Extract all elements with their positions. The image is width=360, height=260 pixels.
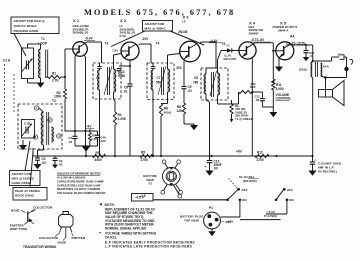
svg-text:100K: 100K [54,95,62,99]
svg-text:ON: ON [242,198,247,202]
svg-text:.01: .01 [59,162,64,166]
svg-text:(20@): (20@) [299,68,307,72]
svg-text:C7: C7 [157,76,161,80]
svg-text:-0.72--6V: -0.72--6V [251,38,265,42]
svg-text:OFF: OFF [287,188,293,192]
svg-text:I-F: I-F [182,20,186,24]
svg-text:ADJUST FOR: ADJUST FOR [12,172,32,176]
svg-text:6400: 6400 [95,158,102,162]
svg-text:.01: .01 [68,140,73,144]
svg-text:2700: 2700 [257,158,264,162]
svg-text:T4: T4 [156,42,160,46]
svg-text:2N489*: 2N489* [249,31,260,35]
svg-text:P=4.5V(E): P=4.5V(E) [264,214,277,218]
svg-text:R1: R1 [52,72,56,76]
svg-text:+6V: +6V [236,150,243,154]
svg-text:C1B: C1B [24,122,31,126]
svg-text:COLLECTOR: COLLECTOR [33,206,53,210]
svg-text:560: 560 [156,81,162,85]
svg-text:GANG OPEN: GANG OPEN [12,181,31,185]
svg-text:ADJUST FOR: ADJUST FOR [145,22,166,26]
svg-text:C2A: C2A [113,49,119,53]
svg-text:NORMAL SIGNAL APPLIED: NORMAL SIGNAL APPLIED [105,227,147,231]
svg-text:ON: ON [289,198,294,202]
svg-text:ADJUST FOR MAX @: ADJUST FOR MAX @ [14,19,45,23]
svg-text:2N135: 2N135 [178,30,188,34]
svg-text:560: 560 [120,74,126,78]
svg-text:.05: .05 [255,98,259,102]
svg-text:MAX @ 1620KC: MAX @ 1620KC [12,176,35,180]
svg-text:X 1: X 1 [73,18,80,23]
svg-text:560@: 560@ [164,111,172,115]
svg-text:R12: R12 [257,151,263,155]
svg-text:ROCKING GANG: ROCKING GANG [14,29,39,33]
svg-text:Y1: Y1 [226,43,230,47]
svg-text:(PNP TYPE): (PNP TYPE) [10,227,27,231]
svg-text:6AA: 6AA [323,65,330,69]
svg-text:+: + [205,165,207,169]
svg-text:C8: C8 [194,76,198,80]
svg-text:X 2: X 2 [120,18,127,23]
svg-text:-4.5V: -4.5V [224,220,232,224]
svg-text:2700: 2700 [141,158,148,162]
svg-text:.02: .02 [42,161,47,165]
svg-text:BASE: BASE [11,209,20,213]
svg-text:L.P INDICATES LATE PRODUCTION: L.P INDICATES LATE PRODUCTION RECEIVERS [105,245,192,249]
svg-text:TRANSISTOR WIRING: TRANSISTOR WIRING [23,245,57,249]
svg-text:CONTROL: CONTROL [276,97,292,101]
svg-text:BASE: BASE [58,241,67,245]
svg-text:T5: T5 [222,42,226,46]
svg-text:5,000: 5,000 [276,87,284,91]
svg-text:780: 780 [193,81,199,85]
svg-text:47K: 47K [176,66,183,70]
svg-text:T2: T2 [148,182,152,186]
svg-text:R5: R5 [141,151,145,155]
svg-text:.01: .01 [188,89,193,93]
svg-text:-5V: -5V [87,125,93,129]
svg-text:ROCK GANG: ROCK GANG [15,194,35,198]
svg-text:2.7K: 2.7K [52,79,59,83]
svg-text:PEAK AT 1620KC: PEAK AT 1620KC [15,189,41,193]
svg-text:12K: 12K [177,109,184,113]
svg-text:COLLECTOR: COLLECTOR [39,236,59,240]
svg-text:AA: AA [290,35,295,39]
svg-text:T1 @ GREEN: T1 @ GREEN [235,117,253,121]
svg-text:T1: T1 [41,37,45,41]
svg-text:EMITTER: EMITTER [72,236,86,240]
svg-text:-10V: -10V [142,37,150,41]
svg-text:-4.5: -4.5 [140,194,146,198]
svg-text:C: C [96,76,98,80]
svg-text:C1 A: C1 A [3,59,11,63]
svg-text:VOLTAGES: 20,000 OHMS/V METER: VOLTAGES: 20,000 OHMS/V METER [57,191,105,195]
svg-text:OFF: OFF [242,188,248,192]
svg-text:MODELS 675, 676, 677, 678: MODELS 675, 676, 677, 678 [84,8,235,17]
svg-text:2N168(L,P): 2N168(L,P) [73,31,89,35]
svg-text:NOTE:: NOTE: [105,203,115,207]
svg-text:J1: J1 [338,52,342,56]
svg-text:LOOP: LOOP [38,42,48,46]
svg-text:RED DOT: RED DOT [224,57,237,61]
svg-text:.01: .01 [123,90,128,94]
svg-text:TOP VIEW: TOP VIEW [184,218,199,222]
svg-text:T2: T2 [52,99,56,103]
svg-text:.01: .01 [310,54,314,58]
svg-text:2.20K: 2.20K [118,117,127,121]
svg-text:5.0V: 5.0V [120,34,127,38]
svg-text:6V RECVRS.): 6V RECVRS.) [318,169,337,173]
svg-text:T3: T3 [105,42,109,46]
svg-text:(SEE NOTE): (SEE NOTE) [243,180,257,183]
svg-text:-5.4V: -5.4V [85,37,93,41]
svg-text:OF R11.: OF R11. [105,235,117,239]
svg-text:S1 On R11: S1 On R11 [239,175,254,179]
svg-text:1500 KC WHILE: 1500 KC WHILE [14,24,37,28]
svg-text:P1: P1 [209,206,213,210]
svg-text:220: 220 [101,139,106,143]
svg-text:220: 220 [251,82,256,86]
svg-text:2N44-A: 2N44-A [278,29,289,33]
svg-text:MAX @ 455KC: MAX @ 455KC [145,27,167,31]
svg-text:R3: R3 [96,151,100,155]
